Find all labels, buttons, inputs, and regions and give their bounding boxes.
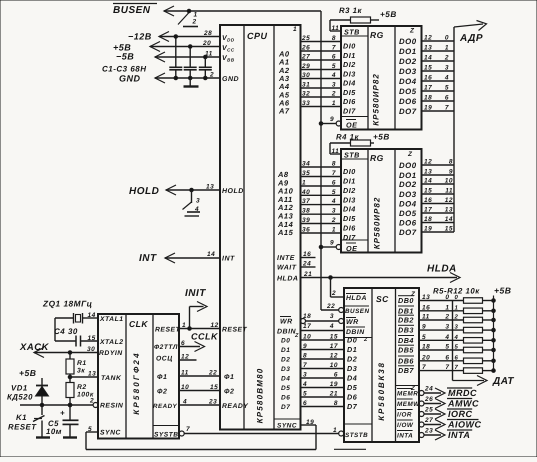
svg-text:3: 3 (445, 324, 449, 331)
svg-text:INT: INT (139, 253, 157, 264)
svg-text:DI5: DI5 (343, 214, 356, 223)
svg-text:14: 14 (424, 55, 432, 62)
wire INTA pin 23 (419, 433, 424, 438)
wire A6 CPU pin 32 to RG1 DI6 pin 2 (301, 96, 342, 98)
svg-text:DB0: DB0 (398, 296, 414, 305)
cpu U2 KR580VM80 box (220, 25, 301, 430)
+5V rail for pullups (493, 296, 495, 371)
svg-text:7: 7 (422, 364, 426, 371)
svg-text:1: 1 (445, 45, 449, 52)
svg-text:18: 18 (422, 344, 430, 351)
svg-text:11: 11 (332, 25, 340, 32)
svg-text:RESET: RESET (155, 327, 181, 334)
svg-text:DO0: DO0 (399, 161, 417, 170)
svg-text:4: 4 (444, 75, 449, 82)
svg-text:Ф1: Ф1 (157, 374, 167, 381)
svg-text:31: 31 (302, 82, 310, 89)
svg-text:2: 2 (192, 19, 197, 26)
wire A2 CPU pin 27 to RG1 DI2 pin 6 (301, 59, 342, 61)
svg-text:DO3: DO3 (399, 67, 417, 76)
svg-text:SYNC: SYNC (100, 430, 121, 437)
svg-text:35: 35 (302, 170, 310, 177)
svg-text:Ф1: Ф1 (224, 374, 234, 381)
svg-text:17: 17 (424, 207, 432, 214)
crystal ZQ1 symbol (73, 313, 75, 324)
svg-text:DO3: DO3 (399, 190, 417, 199)
svg-text:6: 6 (445, 354, 449, 361)
svg-text:XACK: XACK (19, 342, 50, 353)
wire RESET CLK pin 1 to CPU pin 12 with INIT tap (179, 328, 220, 330)
svg-text:D0: D0 (281, 338, 290, 345)
svg-text:HOLD: HOLD (129, 186, 159, 197)
svg-text:VD1: VD1 (11, 384, 28, 393)
svg-text:6: 6 (455, 354, 459, 361)
svg-text:DO7: DO7 (399, 107, 417, 116)
wire xtal loop vertical (54, 318, 56, 341)
svg-text:A15: A15 (277, 228, 294, 237)
svg-text:SC: SC (376, 294, 389, 304)
wire D4 CPU pin 3 to SC pin 6 (301, 377, 345, 379)
svg-text:WAIT: WAIT (277, 265, 297, 272)
svg-text:15: 15 (88, 335, 96, 342)
svg-text:I/OW: I/OW (397, 422, 414, 429)
wire RG2 DO pin 19 to address bus bit 15 (422, 231, 455, 233)
svg-text:DB1: DB1 (398, 306, 414, 315)
resistor R11 (464, 358, 483, 364)
wire A1 CPU pin 26 to RG1 DI1 pin 7 (301, 50, 342, 52)
net INIT arrow (189, 307, 191, 329)
svg-text:12: 12 (424, 35, 432, 42)
svg-text:R1: R1 (77, 360, 87, 367)
svg-text:ДАТ: ДАТ (492, 376, 514, 387)
wire A4 CPU pin 30 to RG1 DI4 pin 4 (301, 78, 342, 80)
svg-text:DO7: DO7 (399, 228, 417, 237)
diode VD1 KD520 (41, 378, 43, 405)
svg-text:26: 26 (424, 396, 433, 403)
svg-text:READY: READY (153, 403, 178, 410)
svg-text:OE: OE (346, 244, 357, 253)
register RG1 KR580IR82 box (341, 26, 422, 130)
svg-text:9: 9 (449, 169, 453, 176)
svg-text:A7: A7 (278, 107, 290, 116)
svg-text:R3 1к: R3 1к (339, 6, 362, 15)
svg-text:2: 2 (444, 314, 449, 321)
wire BUSEN to SC pin 22 (321, 309, 339, 311)
svg-text:D6: D6 (347, 393, 358, 402)
svg-text:C4 30: C4 30 (54, 327, 78, 336)
svg-text:2: 2 (89, 398, 94, 405)
wire IORC pin 25 (419, 412, 424, 417)
wire D5 CPU pin 4 to SC pin 19 (301, 387, 345, 389)
svg-text:29: 29 (301, 63, 310, 70)
svg-text:+5В: +5В (494, 286, 512, 296)
svg-text:1: 1 (302, 180, 306, 187)
svg-text:DI7: DI7 (343, 233, 356, 242)
svg-text:2: 2 (444, 55, 449, 62)
svg-text:АДР: АДР (459, 33, 483, 44)
svg-text:6: 6 (445, 95, 449, 102)
svg-text:DI5: DI5 (343, 88, 356, 97)
connector X1 pins 3-4 jumper (190, 188, 194, 192)
svg-text:D6: D6 (281, 395, 290, 402)
svg-text:16: 16 (422, 304, 430, 311)
svg-text:13: 13 (206, 184, 214, 191)
svg-text:10: 10 (181, 384, 189, 391)
svg-text:DI6: DI6 (343, 97, 356, 106)
rg1 OE cell (341, 116, 368, 118)
wire RG2 DO pin 12 to address bus bit 8 (422, 164, 455, 166)
svg-text:DI1: DI1 (343, 51, 356, 60)
svg-text:D7: D7 (281, 404, 290, 411)
wire DB7 pin 7 (419, 370, 464, 372)
svg-text:D2: D2 (347, 355, 357, 364)
svg-text:AMWC: AMWC (447, 399, 479, 409)
svg-text:1: 1 (445, 304, 449, 311)
svg-text:CPU: CPU (247, 31, 268, 41)
svg-text:КР580ВМ80: КР580ВМ80 (256, 368, 265, 424)
svg-text:1: 1 (194, 12, 198, 19)
svg-text:5: 5 (88, 426, 92, 433)
wire RG1 DO pin 19 to address bus bit 7 (422, 110, 455, 112)
svg-text:8: 8 (332, 35, 336, 42)
wire RG1 DO pin 12 to address bus bit 0 (422, 40, 455, 42)
svg-text:1: 1 (293, 26, 297, 33)
svg-text:15: 15 (424, 65, 432, 72)
wire A10 CPU pin 1 to RG2 DI2 pin 6 (301, 185, 342, 187)
svg-text:ОСЦ: ОСЦ (156, 356, 173, 363)
svg-text:−12В: −12В (128, 32, 152, 42)
wire STSTB CLK pin 7 to SC pin 1 (179, 431, 184, 436)
wire D1 CPU pin 9 to SC pin 17 (301, 349, 345, 351)
svg-text:18: 18 (303, 313, 311, 320)
wire OE1 to BUSEN (319, 122, 323, 126)
svg-text:BUSEN: BUSEN (345, 308, 370, 315)
wire Vcc pin 20 (150, 42, 160, 52)
svg-text:D5: D5 (347, 383, 358, 392)
svg-text:BUSEN: BUSEN (113, 5, 151, 16)
system controller U5 KR580VK38 box (344, 288, 419, 442)
svg-text:0: 0 (455, 294, 459, 301)
svg-text:TANK: TANK (101, 375, 122, 382)
svg-text:14: 14 (424, 178, 432, 185)
svg-text:STB: STB (344, 151, 360, 160)
svg-text:DO0: DO0 (399, 37, 417, 46)
svg-text:15: 15 (330, 334, 338, 341)
svg-text:DI3: DI3 (343, 70, 356, 79)
svg-text:CLK: CLK (129, 319, 148, 329)
svg-text:8: 8 (334, 400, 338, 407)
svg-text:14: 14 (207, 251, 215, 258)
svg-text:1: 1 (332, 100, 336, 107)
svg-text:КР580ИР82: КР580ИР82 (372, 73, 381, 126)
wire TANK pin 13 (68, 375, 72, 379)
svg-text:3: 3 (196, 198, 200, 205)
wire RG2 DO pin 13 to address bus bit 9 (422, 174, 455, 176)
svg-text:39: 39 (302, 217, 310, 224)
svg-text:DB4: DB4 (398, 336, 414, 345)
svg-text:12: 12 (445, 197, 453, 204)
wire A3 CPU pin 29 to RG1 DI3 pin 5 (301, 69, 342, 71)
svg-text:3: 3 (332, 208, 336, 215)
svg-text:DBIN: DBIN (277, 329, 297, 336)
svg-text:37: 37 (302, 198, 310, 205)
svg-text:13: 13 (422, 294, 430, 301)
svg-text:30: 30 (302, 72, 310, 79)
svg-text:D7: D7 (347, 402, 358, 411)
svg-text:22: 22 (326, 303, 335, 310)
svg-text:КР580ГФ24: КР580ГФ24 (132, 351, 141, 414)
svg-text:4: 4 (444, 334, 449, 341)
svg-text:INTA: INTA (448, 430, 470, 440)
wire RG1 DO pin 16 to address bus bit 4 (422, 80, 455, 82)
svg-text:2: 2 (209, 72, 214, 79)
wire A12 CPU pin 37 to RG2 DI4 pin 4 (301, 204, 342, 206)
svg-text:Z: Z (407, 151, 413, 158)
svg-text:КД520: КД520 (7, 393, 33, 402)
svg-text:1: 1 (333, 427, 337, 434)
svg-text:7: 7 (186, 426, 190, 433)
svg-text:2: 2 (331, 217, 336, 224)
rg2 OE cell (341, 239, 368, 241)
wire OE2 to BUSEN (319, 245, 323, 249)
svg-text:4: 4 (454, 334, 459, 341)
svg-text:27: 27 (424, 417, 433, 424)
svg-text:5: 5 (455, 344, 459, 351)
svg-text:RG: RG (370, 30, 384, 40)
wire RG1 DO pin 15 to address bus bit 3 (422, 70, 455, 72)
svg-text:RESET: RESET (222, 327, 248, 334)
svg-text:3: 3 (303, 372, 307, 379)
svg-text:HLDA: HLDA (346, 295, 367, 302)
svg-text:9: 9 (422, 324, 426, 331)
svg-text:6: 6 (181, 340, 185, 347)
svg-text:2: 2 (454, 314, 459, 321)
svg-text:8: 8 (449, 159, 453, 166)
svg-text:7: 7 (445, 105, 449, 112)
wire RG1 DO pin 17 to address bus bit 5 (422, 90, 455, 92)
resistor R6 (464, 308, 483, 314)
register RG2 KR580IR82 box (341, 149, 422, 253)
svg-text:HOLD: HOLD (222, 188, 244, 195)
svg-text:5: 5 (422, 334, 426, 341)
wire XTAL1 pin 14 (55, 317, 74, 319)
svg-text:DI2: DI2 (343, 60, 356, 69)
svg-text:19: 19 (424, 226, 432, 233)
svg-text:2: 2 (331, 91, 336, 98)
wire INTE pin 16 stub (301, 257, 316, 259)
svg-text:INIT: INIT (185, 288, 206, 299)
svg-text:D4: D4 (347, 374, 357, 383)
svg-text:DO5: DO5 (399, 209, 417, 218)
wire A15 CPU pin 36 to RG2 DI7 pin 1 (301, 232, 342, 234)
wire HLDA pin 21 (301, 277, 458, 279)
svg-text:MEMW: MEMW (397, 401, 420, 408)
svg-text:RDYIN: RDYIN (99, 350, 123, 357)
svg-text:12: 12 (181, 354, 189, 361)
svg-text:+: + (60, 409, 65, 418)
svg-text:7: 7 (303, 362, 307, 369)
svg-text:D4: D4 (281, 376, 290, 383)
capacitor C5 10u electrolytic (68, 403, 72, 407)
wire BUSEN (164, 6, 174, 16)
wire RG2 DO pin 16 to address bus bit 12 (422, 203, 455, 205)
svg-text:DB2: DB2 (398, 316, 414, 325)
stray scan segment bottom right (334, 448, 366, 450)
svg-text:24: 24 (424, 386, 433, 393)
svg-text:Z: Z (409, 28, 415, 35)
svg-text:18: 18 (424, 216, 432, 223)
wire DB4 pin 5 (419, 339, 464, 341)
svg-text:7: 7 (445, 364, 449, 371)
wire READY CLK pin 4 to CPU pin 23 (179, 404, 220, 406)
svg-text:MEMR: MEMR (397, 391, 418, 398)
svg-text:INTA: INTA (397, 433, 413, 440)
svg-text:13: 13 (445, 207, 453, 214)
wire A9 CPU pin 35 to RG2 DI1 pin 7 (301, 176, 342, 178)
resistor R2 100k (69, 377, 71, 383)
svg-text:DI4: DI4 (343, 205, 356, 214)
wire RDYIN pin 3 (34, 348, 44, 358)
capacitor C1 (175, 37, 177, 68)
wire D0 CPU pin 10 to SC pin 15 (301, 339, 345, 341)
svg-text:4: 4 (182, 399, 187, 406)
wire RESIN pin 2 (68, 403, 72, 407)
wire A0 CPU pin 25 to RG1 DI0 pin 8 (301, 41, 342, 43)
svg-text:23: 23 (424, 428, 433, 435)
svg-text:DI2: DI2 (343, 186, 356, 195)
svg-text:DI1: DI1 (343, 177, 356, 186)
svg-text:GND: GND (119, 74, 141, 84)
svg-text:17: 17 (330, 343, 338, 350)
resistor R9 (464, 338, 483, 344)
wire RG1 DO pin 14 to address bus bit 2 (422, 60, 455, 62)
svg-text:D3: D3 (347, 364, 357, 373)
svg-text:−5В: −5В (116, 52, 134, 62)
clock generator U1 KR580GF24 box (98, 314, 179, 439)
svg-text:DO6: DO6 (399, 219, 417, 228)
svg-text:D1: D1 (347, 345, 357, 354)
svg-text:23: 23 (208, 399, 217, 406)
svg-text:DB5: DB5 (398, 346, 414, 355)
svg-text:17: 17 (424, 85, 432, 92)
resistor R10 (464, 347, 483, 353)
svg-text:36: 36 (302, 227, 310, 234)
svg-text:8: 8 (332, 161, 336, 168)
wire WAIT pin 24 stub (301, 266, 316, 268)
svg-text:RESIN: RESIN (100, 403, 124, 410)
capacitor C2 (189, 47, 191, 68)
svg-text:D1: D1 (281, 347, 290, 354)
svg-text:DO4: DO4 (399, 77, 417, 86)
svg-text:SYSTB: SYSTB (154, 432, 178, 439)
wire RG2 DO pin 18 to address bus bit 14 (422, 222, 455, 224)
svg-text:D0: D0 (347, 336, 357, 345)
svg-text:MRDC: MRDC (448, 388, 477, 398)
svg-text:18: 18 (424, 95, 432, 102)
svg-text:6: 6 (332, 54, 336, 61)
resistor R8 (464, 327, 483, 333)
resistor R1 3k (68, 351, 72, 355)
wire AIOWC pin 27 (419, 422, 424, 427)
svg-text:5: 5 (303, 391, 307, 398)
svg-text:RG: RG (370, 153, 384, 163)
svg-text:D2: D2 (281, 357, 290, 364)
svg-text:DI3: DI3 (343, 195, 356, 204)
wire DB6 pin 20 (419, 360, 464, 362)
wire RG2 DO pin 17 to address bus bit 13 (422, 212, 455, 214)
pushbutton K1 RESET (41, 405, 43, 415)
svg-text:38: 38 (302, 208, 310, 215)
svg-text:4: 4 (329, 323, 334, 330)
svg-text:15: 15 (210, 384, 218, 391)
svg-text:DI0: DI0 (343, 167, 356, 176)
svg-text:I/OR: I/OR (397, 412, 412, 419)
ground symbol under C5 (63, 436, 77, 438)
svg-text:DO1: DO1 (399, 47, 417, 56)
svg-text:10: 10 (445, 178, 453, 185)
svg-text:13: 13 (424, 169, 432, 176)
svg-text:1: 1 (455, 304, 459, 311)
svg-text:READY: READY (222, 403, 249, 410)
svg-text:DI6: DI6 (343, 224, 356, 233)
svg-text:4: 4 (194, 206, 199, 213)
wire AMWC pin 26 (419, 401, 424, 406)
svg-text:+5В: +5В (19, 368, 37, 378)
svg-text:5: 5 (445, 344, 449, 351)
wire D6 CPU pin 5 to SC pin 21 (301, 396, 345, 398)
svg-text:22: 22 (208, 370, 217, 377)
resistor R7 (464, 317, 483, 323)
svg-text:КР580ИР82: КР580ИР82 (373, 197, 382, 250)
svg-text:24: 24 (302, 261, 311, 268)
svg-text:25: 25 (424, 407, 433, 414)
svg-text:DO1: DO1 (399, 171, 417, 180)
wire WR CPU pin 18 to SC pin 3 (301, 319, 306, 324)
svg-text:Ф2ТТЛ: Ф2ТТЛ (154, 344, 178, 351)
wire GND pin 2 (155, 73, 165, 83)
svg-text:9: 9 (330, 116, 334, 123)
svg-text:21: 21 (329, 391, 338, 398)
svg-text:DB7: DB7 (398, 366, 414, 375)
svg-text:K1: K1 (16, 413, 27, 422)
svg-text:34: 34 (302, 161, 310, 168)
svg-text:11: 11 (422, 314, 430, 321)
svg-text:Ф2: Ф2 (224, 389, 234, 396)
wire XTAL2 pin 15 (55, 340, 76, 342)
wire RG1 DO pin 13 to address bus bit 1 (422, 50, 455, 52)
svg-text:HLDA: HLDA (277, 276, 298, 283)
wire A5 CPU pin 31 to RG1 DI5 pin 3 (301, 87, 342, 89)
svg-text:20: 20 (421, 354, 430, 361)
svg-text:DB3: DB3 (398, 326, 414, 335)
wire RG1 DO pin 18 to address bus bit 6 (422, 100, 455, 102)
svg-text:1: 1 (182, 322, 186, 329)
svg-text:3: 3 (445, 65, 449, 72)
svg-text:12: 12 (211, 322, 219, 329)
resistor R5 (464, 298, 483, 304)
wire F1 CLK pin 11 to CPU pin 22 (179, 375, 220, 377)
svg-text:WR: WR (346, 319, 359, 326)
svg-text:CCLK: CCLK (191, 332, 219, 342)
svg-text:5: 5 (445, 85, 449, 92)
wire DB1 pin 16 (419, 310, 464, 312)
ground symbol (189, 78, 191, 86)
svg-text:Ф2: Ф2 (157, 389, 167, 396)
svg-text:+5В: +5В (373, 133, 390, 142)
svg-text:4: 4 (302, 381, 307, 388)
svg-text:INT: INT (222, 256, 235, 263)
wire DB5 pin 18 (419, 349, 464, 351)
